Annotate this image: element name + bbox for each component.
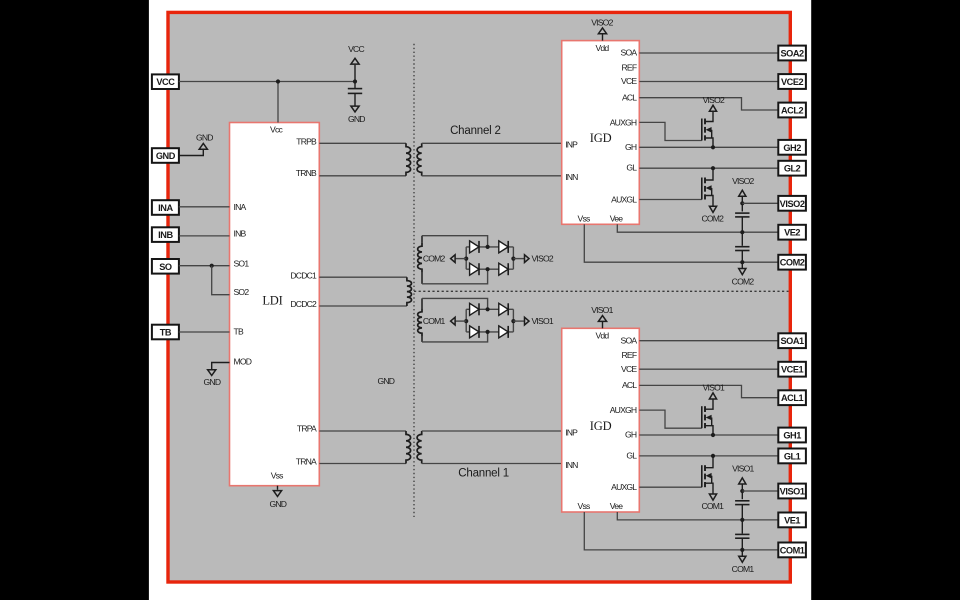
svg-text:INP: INP (565, 427, 578, 437)
svg-text:Vss: Vss (271, 471, 283, 481)
svg-text:COM2: COM2 (423, 254, 446, 264)
svg-text:COM2: COM2 (701, 213, 724, 223)
svg-text:SOA1: SOA1 (780, 336, 804, 346)
svg-text:COM1: COM1 (423, 316, 446, 326)
svg-text:Vee: Vee (610, 501, 623, 511)
svg-text:COM1: COM1 (780, 545, 805, 555)
svg-text:REF: REF (622, 62, 637, 72)
svg-text:GH1: GH1 (783, 431, 801, 441)
svg-text:TB: TB (160, 328, 172, 338)
svg-text:Channel 2: Channel 2 (450, 125, 501, 137)
svg-text:SOA2: SOA2 (780, 49, 804, 59)
svg-text:DCDC1: DCDC1 (290, 270, 317, 280)
svg-text:ACL2: ACL2 (781, 106, 804, 116)
svg-text:COM1: COM1 (732, 564, 755, 574)
svg-text:Vdd: Vdd (595, 331, 609, 341)
svg-text:Vee: Vee (610, 213, 623, 223)
svg-text:INP: INP (565, 140, 578, 150)
svg-text:TRPB: TRPB (296, 137, 317, 147)
svg-text:SO1: SO1 (234, 258, 250, 268)
svg-text:INA: INA (234, 202, 247, 212)
svg-text:VISO2: VISO2 (591, 17, 613, 27)
svg-text:GL: GL (626, 450, 637, 460)
svg-text:VISO1: VISO1 (732, 464, 754, 474)
svg-text:LDI: LDI (262, 294, 282, 308)
svg-text:COM1: COM1 (701, 501, 724, 511)
svg-text:Vss: Vss (578, 213, 590, 223)
svg-text:INB: INB (234, 228, 247, 238)
svg-text:VISO1: VISO1 (703, 383, 725, 393)
svg-text:COM2: COM2 (732, 276, 755, 286)
svg-text:REF: REF (622, 350, 637, 360)
svg-text:MOD: MOD (234, 356, 252, 366)
svg-text:GL2: GL2 (784, 164, 801, 174)
svg-text:VE2: VE2 (784, 228, 800, 238)
svg-text:GND: GND (269, 499, 286, 509)
svg-text:AUXGH: AUXGH (610, 405, 637, 415)
svg-text:VISO1: VISO1 (532, 316, 554, 326)
svg-text:AUXGH: AUXGH (610, 117, 637, 127)
svg-text:COM2: COM2 (780, 258, 805, 268)
svg-text:ACL: ACL (622, 380, 637, 390)
svg-text:TRNA: TRNA (296, 456, 317, 466)
svg-text:INA: INA (158, 203, 173, 213)
svg-text:ACL1: ACL1 (781, 393, 804, 403)
svg-text:TRPA: TRPA (297, 424, 317, 434)
svg-text:SO2: SO2 (234, 287, 250, 297)
svg-text:INB: INB (158, 230, 173, 240)
svg-text:GND: GND (377, 376, 394, 386)
svg-text:GND: GND (348, 114, 365, 124)
svg-text:SOA: SOA (621, 48, 638, 58)
svg-text:VCC: VCC (348, 44, 364, 54)
svg-text:GND: GND (196, 133, 213, 143)
svg-text:DCDC2: DCDC2 (290, 299, 317, 309)
svg-text:IGD: IGD (590, 419, 612, 433)
svg-text:GL1: GL1 (784, 451, 801, 461)
svg-text:AUXGL: AUXGL (611, 194, 637, 204)
svg-text:INN: INN (565, 172, 578, 182)
svg-text:VE1: VE1 (784, 515, 800, 525)
svg-text:GH: GH (625, 142, 637, 152)
svg-text:TRNB: TRNB (296, 168, 317, 178)
svg-text:GND: GND (156, 151, 176, 161)
svg-text:VCC: VCC (156, 77, 175, 87)
svg-text:VISO2: VISO2 (732, 176, 754, 186)
svg-text:VCE: VCE (621, 76, 637, 86)
svg-text:Vss: Vss (578, 501, 590, 511)
svg-text:IGD: IGD (590, 131, 612, 145)
svg-text:GH: GH (625, 430, 637, 440)
svg-text:Vcc: Vcc (270, 125, 283, 135)
svg-text:GH2: GH2 (783, 143, 801, 153)
svg-text:TB: TB (234, 327, 244, 337)
svg-text:Vdd: Vdd (595, 43, 609, 53)
svg-text:GND: GND (204, 377, 221, 387)
svg-text:VCE: VCE (621, 364, 637, 374)
svg-text:AUXGL: AUXGL (611, 482, 637, 492)
svg-text:INN: INN (565, 460, 578, 470)
svg-text:GL: GL (626, 163, 637, 173)
svg-text:VISO2: VISO2 (532, 254, 554, 264)
svg-text:Channel 1: Channel 1 (458, 468, 509, 480)
svg-text:SO: SO (159, 262, 172, 272)
svg-text:ACL: ACL (622, 92, 637, 102)
svg-text:VISO1: VISO1 (780, 487, 805, 497)
svg-text:VISO1: VISO1 (591, 305, 613, 315)
svg-text:VISO2: VISO2 (703, 95, 725, 105)
svg-text:VCE2: VCE2 (781, 77, 804, 87)
svg-text:VCE1: VCE1 (781, 365, 804, 375)
svg-text:SOA: SOA (621, 335, 638, 345)
svg-text:VISO2: VISO2 (780, 199, 805, 209)
